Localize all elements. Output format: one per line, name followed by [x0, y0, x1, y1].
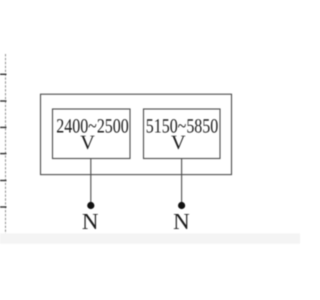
svg-text:V: V [80, 132, 95, 154]
tick mark 4 [0, 153, 7, 155]
wire from B1 to node N1 [90, 159, 92, 203]
svg-text:V: V [171, 132, 186, 154]
tick mark 3 [0, 126, 7, 128]
band module box B1 [53, 109, 131, 159]
left page-edge dashed rule [5, 54, 7, 234]
tick mark 6 [0, 206, 7, 208]
outer enclosure box [41, 94, 232, 174]
node N1 (terminal dot) [87, 202, 94, 209]
svg-text:N: N [82, 209, 99, 234]
svg-text:N: N [173, 209, 190, 234]
gray separator band [0, 233, 300, 243]
band module box B2 [144, 109, 221, 159]
node N2 (terminal dot) [178, 202, 185, 209]
tick mark 2 [0, 100, 7, 102]
tick mark 5 [0, 180, 7, 182]
tick mark 1 [0, 73, 7, 75]
wire from B2 to node N2 [181, 159, 183, 203]
